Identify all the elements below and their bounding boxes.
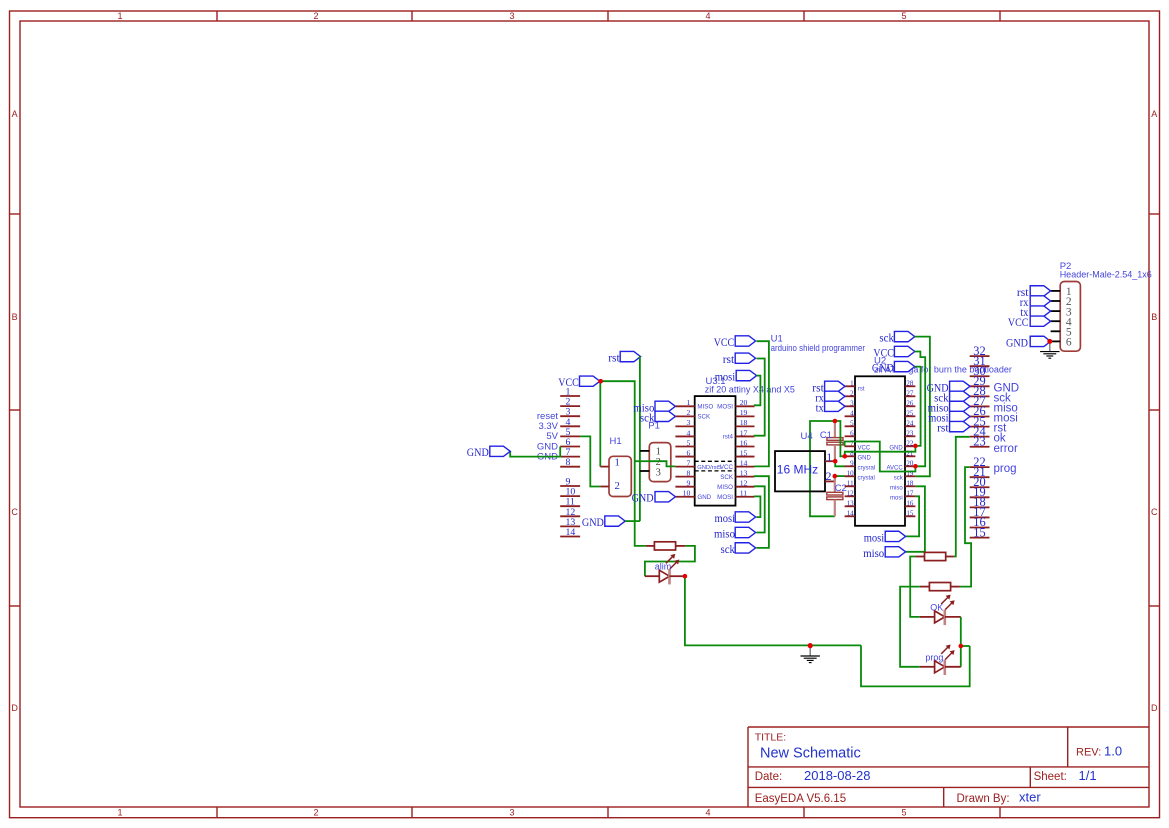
net flag rst at U2 pin1	[825, 381, 845, 391]
junction U2 pin22 GND	[913, 444, 918, 449]
svg-text:5: 5	[850, 419, 854, 427]
svg-text:Sheet:: Sheet:	[1034, 771, 1067, 783]
svg-text:rst4: rst4	[723, 434, 734, 441]
svg-text:23: 23	[906, 429, 914, 437]
P1 pin 1 line	[640, 450, 649, 452]
net flag rst pin25	[950, 421, 970, 431]
svg-text:prog: prog	[994, 463, 1017, 475]
svg-text:6: 6	[686, 448, 690, 457]
crystal U4 body	[775, 451, 825, 491]
svg-text:3: 3	[686, 418, 690, 427]
junction P2 pin6 GND	[1047, 339, 1052, 344]
svg-text:sck: sck	[721, 542, 736, 556]
svg-text:14: 14	[847, 509, 855, 517]
wire VCC down to H1 pin 1	[599, 381, 601, 466]
LED prog anode lead	[920, 666, 935, 668]
svg-text:5: 5	[901, 11, 906, 21]
svg-text:U4: U4	[801, 431, 813, 442]
ground symbol at P2 pin6	[1049, 341, 1051, 351]
svg-text:2: 2	[313, 808, 318, 818]
capacitor C1 top lead	[834, 421, 836, 438]
svg-text:VCC: VCC	[714, 335, 735, 349]
P2 pin lines 1-6	[1051, 291, 1061, 342]
wire crystal pin2 to ATmega pin10	[835, 475, 845, 477]
svg-text:26: 26	[906, 399, 914, 407]
svg-text:1: 1	[615, 456, 620, 468]
net flag sck bottom of U3.1	[735, 543, 755, 553]
svg-text:B: B	[1151, 312, 1157, 322]
P1 pin 3 line	[640, 470, 649, 472]
LED alim	[659, 570, 669, 582]
net flag rx at P2 pin2	[1030, 296, 1050, 306]
wire sck flag to U3.1 pin13	[754, 476, 769, 548]
right column pin numbers	[973, 344, 985, 539]
net flag mosi top of U3.1	[736, 370, 756, 380]
svg-text:25: 25	[906, 409, 914, 417]
svg-text:24: 24	[906, 419, 914, 427]
resistor R3 lead left	[920, 586, 930, 588]
svg-text:B: B	[12, 312, 18, 322]
net flag GND pin29	[950, 381, 970, 391]
wire U2 pin7 VCC to AVCC	[845, 442, 916, 472]
wire crystal pin1 to ATmega pin9	[835, 461, 845, 466]
svg-text:16: 16	[740, 438, 748, 447]
net flag rst top of U3.1	[735, 353, 755, 363]
svg-text:Header-Male-2.54_1x6: Header-Male-2.54_1x6	[1060, 270, 1152, 280]
capacitor C1 plates	[827, 438, 843, 441]
svg-text:rst: rst	[937, 421, 949, 435]
svg-text:10: 10	[847, 469, 855, 477]
junction at alim cathode	[683, 574, 688, 579]
net flag VCC	[580, 376, 600, 386]
wire VCC right and down to alim resistor	[601, 381, 646, 546]
svg-text:GND: GND	[582, 515, 604, 529]
U2 right pin lines 15-28	[905, 386, 915, 516]
U2 internal pin names	[858, 387, 904, 502]
resistor R1 alim lead left	[646, 545, 655, 547]
svg-text:21: 21	[906, 449, 914, 457]
svg-text:miso: miso	[890, 486, 903, 492]
svg-text:VCC: VCC	[1008, 315, 1029, 329]
connector P2 body	[1060, 282, 1080, 352]
junction C1 top GND net	[833, 419, 838, 424]
net flag GND at P2 pin6	[1030, 336, 1050, 346]
svg-text:mosi: mosi	[715, 511, 736, 525]
U3.1 internal dashed separators	[695, 460, 736, 462]
resistor R2 lead left	[916, 556, 925, 558]
svg-text:19: 19	[906, 469, 914, 477]
svg-text:17: 17	[906, 489, 914, 497]
LED prog cathode lead	[945, 666, 961, 668]
svg-text:tx: tx	[816, 400, 824, 414]
svg-text:13: 13	[740, 468, 748, 477]
net flag GND top of U2	[894, 361, 914, 371]
svg-text:2: 2	[850, 389, 854, 397]
wire 5V pin5 to H1 pin 2	[580, 436, 600, 486]
U2 pin numbers	[847, 379, 914, 517]
svg-text:18: 18	[740, 418, 748, 427]
svg-text:7: 7	[850, 439, 854, 447]
svg-text:7: 7	[686, 458, 690, 467]
svg-text:C1: C1	[820, 430, 832, 441]
net flag miso to U3.1 pin1	[655, 401, 675, 411]
title block	[748, 727, 1149, 807]
svg-text:3: 3	[509, 11, 514, 21]
LED OK anode lead	[920, 616, 935, 618]
svg-text:MOSI: MOSI	[717, 494, 733, 501]
connector P1 body	[649, 443, 671, 482]
svg-text:1: 1	[117, 808, 122, 818]
net flag VCC top of U2	[894, 346, 914, 356]
net flag GND left	[490, 446, 510, 456]
svg-text:mosi: mosi	[864, 530, 885, 544]
svg-text:rst: rst	[608, 351, 620, 365]
svg-text:23: 23	[973, 434, 985, 448]
svg-text:19: 19	[740, 408, 748, 417]
LED OK	[935, 611, 945, 623]
svg-text:crysral: crysral	[858, 465, 876, 471]
svg-text:TITLE:: TITLE:	[755, 731, 787, 743]
svg-text:8: 8	[850, 449, 854, 457]
svg-text:GND: GND	[872, 361, 894, 375]
svg-text:A: A	[1151, 109, 1157, 119]
svg-text:rst: rst	[723, 352, 735, 366]
svg-text:5: 5	[901, 808, 906, 818]
svg-text:2018-08-28: 2018-08-28	[804, 768, 871, 783]
svg-text:15: 15	[906, 509, 914, 517]
net flag sck top of U2	[894, 331, 914, 341]
svg-text:4: 4	[705, 11, 710, 21]
svg-text:C: C	[11, 507, 18, 517]
U3.1 internal pin names	[697, 403, 734, 501]
net flag mosi below U2	[885, 531, 905, 541]
wire mosi flag to U3.1 pin11	[754, 496, 761, 517]
svg-text:9: 9	[850, 459, 854, 467]
capacitor C1 bottom lead	[834, 445, 836, 461]
svg-text:rst: rst	[858, 387, 865, 393]
svg-text:MISO: MISO	[697, 403, 713, 410]
svg-text:AVCC: AVCC	[886, 465, 903, 471]
wire ok pin24 down to R2	[954, 437, 970, 557]
svg-text:3: 3	[656, 467, 661, 478]
LED OK emission arrows	[941, 596, 949, 604]
resistor R1 alim	[654, 542, 675, 550]
net flag miso below U2	[885, 547, 905, 557]
svg-text:VCC: VCC	[720, 464, 734, 471]
junction crystal pin1 with C1	[833, 459, 838, 464]
svg-text:20: 20	[740, 398, 748, 407]
svg-text:C2: C2	[835, 483, 847, 494]
svg-text:15: 15	[973, 525, 985, 539]
wire junction to right bus	[961, 645, 970, 647]
resistor R2 ok	[925, 552, 946, 560]
wire GND pin13 flag to rst vertical	[625, 520, 640, 522]
wire GND flag to pins 6 and 7	[510, 447, 560, 457]
wire sck flag down to U2 pin19	[915, 337, 930, 477]
connector J1 pin lines 9-14	[560, 486, 580, 537]
frame row labels	[11, 109, 1158, 713]
svg-text:8: 8	[686, 468, 690, 477]
wire OK cathode down to junction	[960, 617, 962, 667]
wire R2 down to LED OK anode	[910, 557, 920, 617]
svg-text:17: 17	[740, 428, 748, 437]
svg-text:1.0: 1.0	[1104, 744, 1122, 759]
svg-text:A: A	[12, 109, 18, 119]
svg-text:9: 9	[686, 479, 690, 488]
wire P1 pin 2 through body to U3.1 pin 7	[649, 461, 675, 466]
svg-text:MOSI: MOSI	[717, 403, 733, 410]
header H1 body	[609, 456, 631, 496]
net flag miso bottom of U3.1	[735, 527, 755, 537]
LED prog emission arrows	[941, 646, 949, 654]
svg-text:SCK: SCK	[697, 413, 711, 420]
svg-text:alim: alim	[655, 562, 672, 572]
svg-text:5: 5	[686, 438, 690, 447]
IC U3.1 body	[695, 396, 736, 506]
svg-text:sck: sck	[640, 411, 655, 425]
resistor R3 lead right	[951, 586, 960, 588]
svg-text:1: 1	[826, 450, 832, 464]
svg-text:MISO: MISO	[717, 484, 733, 491]
net flag tx at U2 pin3	[825, 401, 845, 411]
net flag mosi bottom of U3.1	[735, 512, 755, 522]
connector J1 pin numbers	[566, 387, 576, 539]
net flag rst	[620, 351, 640, 361]
svg-text:zif 20 attiny X4 and X5: zif 20 attiny X4 and X5	[705, 384, 795, 394]
U2 left pin lines 1-14	[845, 386, 855, 516]
junction on VCC flag output	[598, 379, 603, 384]
LED prog	[935, 661, 945, 673]
svg-text:12: 12	[847, 489, 855, 497]
svg-text:miso: miso	[714, 527, 735, 541]
svg-text:OK: OK	[930, 602, 943, 612]
wire prog pin22 down to R3	[960, 467, 971, 586]
LED alim anode lead	[645, 575, 659, 577]
net flag sck to U3.1 pin2	[655, 411, 675, 421]
svg-text:GND: GND	[632, 491, 654, 505]
svg-text:VCC: VCC	[558, 375, 579, 389]
svg-text:C: C	[1151, 507, 1158, 517]
ground symbol GND1	[809, 646, 811, 656]
wire rst flag to U3.1 pin17 rst4	[754, 359, 765, 436]
U3.1 left pin lines 1-10	[675, 406, 694, 496]
wire GND flag down to U2 pin22	[915, 367, 921, 446]
svg-text:2: 2	[826, 469, 832, 483]
net flag sck pin28	[950, 391, 970, 401]
svg-text:VCC: VCC	[873, 346, 894, 360]
svg-text:mosi: mosi	[890, 496, 903, 502]
net flag GND at U3.1 pin10	[655, 492, 675, 502]
U4 pin 2 line	[825, 480, 835, 482]
svg-text:crystal: crystal	[858, 476, 875, 482]
svg-text:2: 2	[686, 408, 690, 417]
svg-text:GND: GND	[889, 445, 903, 451]
H1 pin 2 line	[600, 486, 609, 488]
svg-text:Date:: Date:	[755, 771, 783, 783]
svg-text:miso: miso	[863, 546, 884, 560]
frame column labels	[117, 11, 906, 817]
svg-text:GND: GND	[858, 455, 872, 461]
wire U2 pin18 miso down to miso flag	[906, 486, 925, 552]
wire alim cathode to ground run	[685, 576, 861, 645]
svg-text:xter: xter	[1019, 790, 1041, 805]
svg-text:16: 16	[906, 499, 914, 507]
svg-text:3: 3	[850, 399, 854, 407]
H1 pin 1 line	[600, 466, 609, 468]
svg-text:New Schematic: New Schematic	[760, 746, 861, 762]
wire mosi flag to U3.1 pin20	[754, 376, 761, 406]
wire VCC flag staircase down to AVCC junction	[915, 352, 925, 467]
svg-text:4: 4	[686, 428, 690, 437]
svg-text:GND: GND	[697, 494, 711, 501]
svg-text:mosi: mosi	[715, 370, 736, 384]
svg-text:10: 10	[683, 489, 691, 498]
svg-text:14: 14	[566, 527, 576, 538]
svg-text:4: 4	[850, 409, 854, 417]
resistor R1 alim lead right	[676, 545, 686, 547]
svg-text:6: 6	[1066, 337, 1072, 349]
connector pin lines 32 down to 23	[970, 356, 990, 447]
net flag mosi pin26	[950, 411, 970, 421]
capacitor C2 bottom lead	[834, 500, 836, 517]
svg-text:6: 6	[850, 429, 854, 437]
svg-text:27: 27	[906, 389, 914, 397]
wire VCC flag to U3.1 pin14	[754, 341, 769, 466]
P2 pin numbers	[1066, 286, 1072, 349]
svg-text:1/1: 1/1	[1079, 768, 1097, 783]
wire rst down past P1 pin1 to GND-13 run	[639, 357, 642, 521]
svg-text:11: 11	[740, 489, 748, 498]
svg-text:GND: GND	[467, 445, 489, 459]
svg-text:11: 11	[847, 479, 854, 487]
junction crystal pin2 with C2	[833, 474, 838, 479]
capacitor C2 plates	[827, 492, 843, 495]
svg-text:3: 3	[509, 808, 514, 818]
connector pin lines 22 down to 15	[970, 467, 990, 537]
wire C1 top to ATmega pin8 GND	[835, 421, 845, 456]
svg-text:16 MHz: 16 MHz	[777, 462, 818, 476]
svg-text:D: D	[1151, 703, 1158, 713]
LED alim emission arrows	[666, 555, 674, 563]
svg-text:SCK: SCK	[720, 474, 734, 481]
resistor R3 prog	[929, 583, 950, 591]
net flag miso pin27	[950, 401, 970, 411]
wire miso flag to U3.1 pin12	[754, 486, 765, 532]
svg-text:4: 4	[705, 808, 710, 818]
wire GND link C1 top to C2 bottom	[810, 421, 835, 516]
LED OK cathode lead	[945, 616, 961, 618]
svg-text:18: 18	[906, 479, 914, 487]
svg-text:GND: GND	[1006, 335, 1028, 349]
LED alim cathode lead	[670, 575, 685, 577]
svg-text:1: 1	[656, 447, 661, 458]
junction LED cathode bus	[959, 644, 964, 649]
wire U2 pin17 mosi down to mosi flag	[906, 496, 920, 536]
IC U2 ATmega body	[855, 376, 905, 526]
svg-text:D: D	[11, 703, 18, 713]
net flag GND pin13	[605, 516, 625, 526]
svg-text:1: 1	[850, 379, 854, 387]
junction ATmega pin8 GND	[843, 454, 848, 459]
svg-text:13: 13	[847, 499, 855, 507]
svg-text:28: 28	[906, 379, 914, 387]
svg-text:2: 2	[313, 11, 318, 21]
wire R3 down to LED prog anode	[900, 587, 920, 667]
net flag rst at P2 pin1	[1030, 286, 1050, 296]
svg-text:12: 12	[740, 479, 748, 488]
svg-text:14: 14	[740, 458, 748, 467]
svg-text:8: 8	[566, 457, 571, 468]
junction at ground symbol	[808, 643, 813, 648]
U3.1 right pin lines 11-20	[736, 406, 755, 496]
svg-text:sck: sck	[879, 331, 894, 345]
wire R1 to LED alim anode	[645, 546, 695, 576]
svg-text:GND/rst5: GND/rst5	[697, 465, 721, 471]
svg-text:1: 1	[686, 398, 690, 407]
U3.1 pin numbers	[683, 398, 748, 497]
capacitor C2 top lead	[834, 476, 836, 492]
connector J1 pin lines 1-8	[560, 396, 580, 467]
wire ground run to LED cathode bus	[861, 645, 970, 686]
wire pin8 GND over to pin22 GND	[845, 446, 916, 456]
net flag VCC top of U3.1	[735, 336, 755, 346]
svg-text:prog: prog	[925, 652, 943, 662]
svg-text:sck: sck	[894, 476, 904, 482]
svg-text:error: error	[994, 443, 1018, 455]
net flag tx at P2 pin3	[1030, 306, 1050, 316]
resistor R2 lead right	[946, 556, 954, 558]
svg-text:15: 15	[740, 448, 748, 457]
U4 pin 1 line	[825, 460, 835, 462]
svg-text:VCC: VCC	[858, 445, 871, 451]
svg-text:Drawn By:: Drawn By:	[957, 793, 1010, 805]
svg-text:2: 2	[615, 480, 620, 492]
junction U2 pin20 AVCC	[913, 464, 918, 469]
svg-text:arduino shield programmer: arduino shield programmer	[771, 343, 865, 353]
P1 pin 2 wire from VCC rail	[635, 460, 650, 462]
svg-text:1: 1	[117, 11, 122, 21]
svg-text:22: 22	[906, 439, 914, 447]
svg-text:REV:: REV:	[1076, 747, 1101, 759]
svg-text:EasyEDA V5.6.15: EasyEDA V5.6.15	[755, 793, 846, 805]
svg-text:H1: H1	[610, 436, 622, 447]
net flag VCC at P2 pin4	[1030, 316, 1050, 326]
net flag rx at U2 pin2	[825, 391, 845, 401]
svg-text:20: 20	[906, 459, 914, 467]
